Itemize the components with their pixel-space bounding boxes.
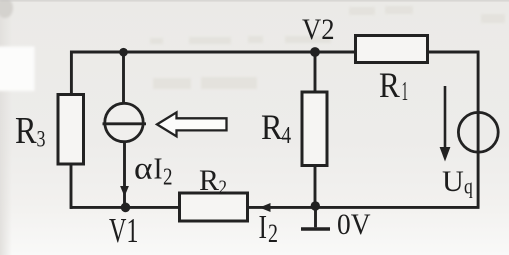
label Uq (442, 165, 473, 198)
bleed-through faint print marks (150, 6, 505, 89)
wire current source bottom lead (123, 140, 126, 207)
svg-text:α: α (134, 149, 153, 185)
label R1 (379, 65, 408, 106)
resistor R4 (302, 92, 327, 166)
label R4 (261, 107, 291, 149)
node V1 dot (121, 203, 131, 213)
svg-text:I: I (259, 209, 268, 246)
label R2 (199, 164, 227, 199)
label R3 (15, 110, 46, 152)
current source (circle with horizontal bar) (103, 103, 147, 141)
faint scan edge along top (0, 0, 509, 2)
wire bottom horizontal rail (70, 206, 480, 209)
node 0V dot (311, 201, 320, 210)
svg-text:1: 1 (402, 76, 409, 106)
circuit wires (70, 51, 480, 209)
svg-text:2: 2 (219, 177, 228, 199)
voltage source Uq (circle on wire) (458, 112, 498, 152)
wire left vertical upper (rail to R3) (70, 51, 73, 96)
wire R4 top lead from node V2 (314, 52, 317, 94)
node V2 dot (310, 47, 320, 57)
wire top horizontal rail (70, 51, 480, 54)
svg-text:V1: V1 (109, 211, 139, 250)
white correction patch (0, 47, 35, 92)
wire left vertical lower (R3 to bottom rail) (70, 163, 73, 209)
svg-text:V2: V2 (302, 13, 335, 46)
arrow Uq voltage direction (down) (440, 86, 451, 162)
wire right vertical (477, 52, 480, 207)
ground 0V symbol (301, 207, 330, 229)
label I2 bottom (259, 209, 279, 248)
faint corner smudge top-left (0, 0, 13, 18)
resistor R3 (58, 95, 84, 165)
resistor R1 (356, 36, 428, 63)
svg-text:I: I (154, 150, 163, 185)
svg-text:4: 4 (282, 123, 292, 149)
svg-text:R: R (199, 164, 219, 197)
arrowhead of controlled current alphaI2 (down) (120, 186, 129, 197)
wire R4 bottom lead (314, 164, 317, 207)
resistor R2 (180, 193, 248, 221)
svg-text:q: q (464, 174, 473, 199)
svg-text:0V: 0V (337, 208, 371, 241)
svg-text:R: R (379, 65, 400, 105)
wire current source top lead (122, 52, 125, 105)
svg-text:2: 2 (268, 219, 278, 248)
svg-text:R: R (261, 107, 283, 147)
node dot top-left junction (119, 48, 128, 57)
svg-text:2: 2 (163, 165, 173, 191)
arrowhead I2 on bottom rail (points left) (260, 203, 271, 212)
hollow control arrow (points left) (157, 112, 227, 136)
label alpha I2 (134, 149, 173, 190)
svg-text:3: 3 (37, 127, 46, 152)
svg-text:R: R (15, 110, 37, 152)
svg-text:U: U (442, 165, 464, 198)
